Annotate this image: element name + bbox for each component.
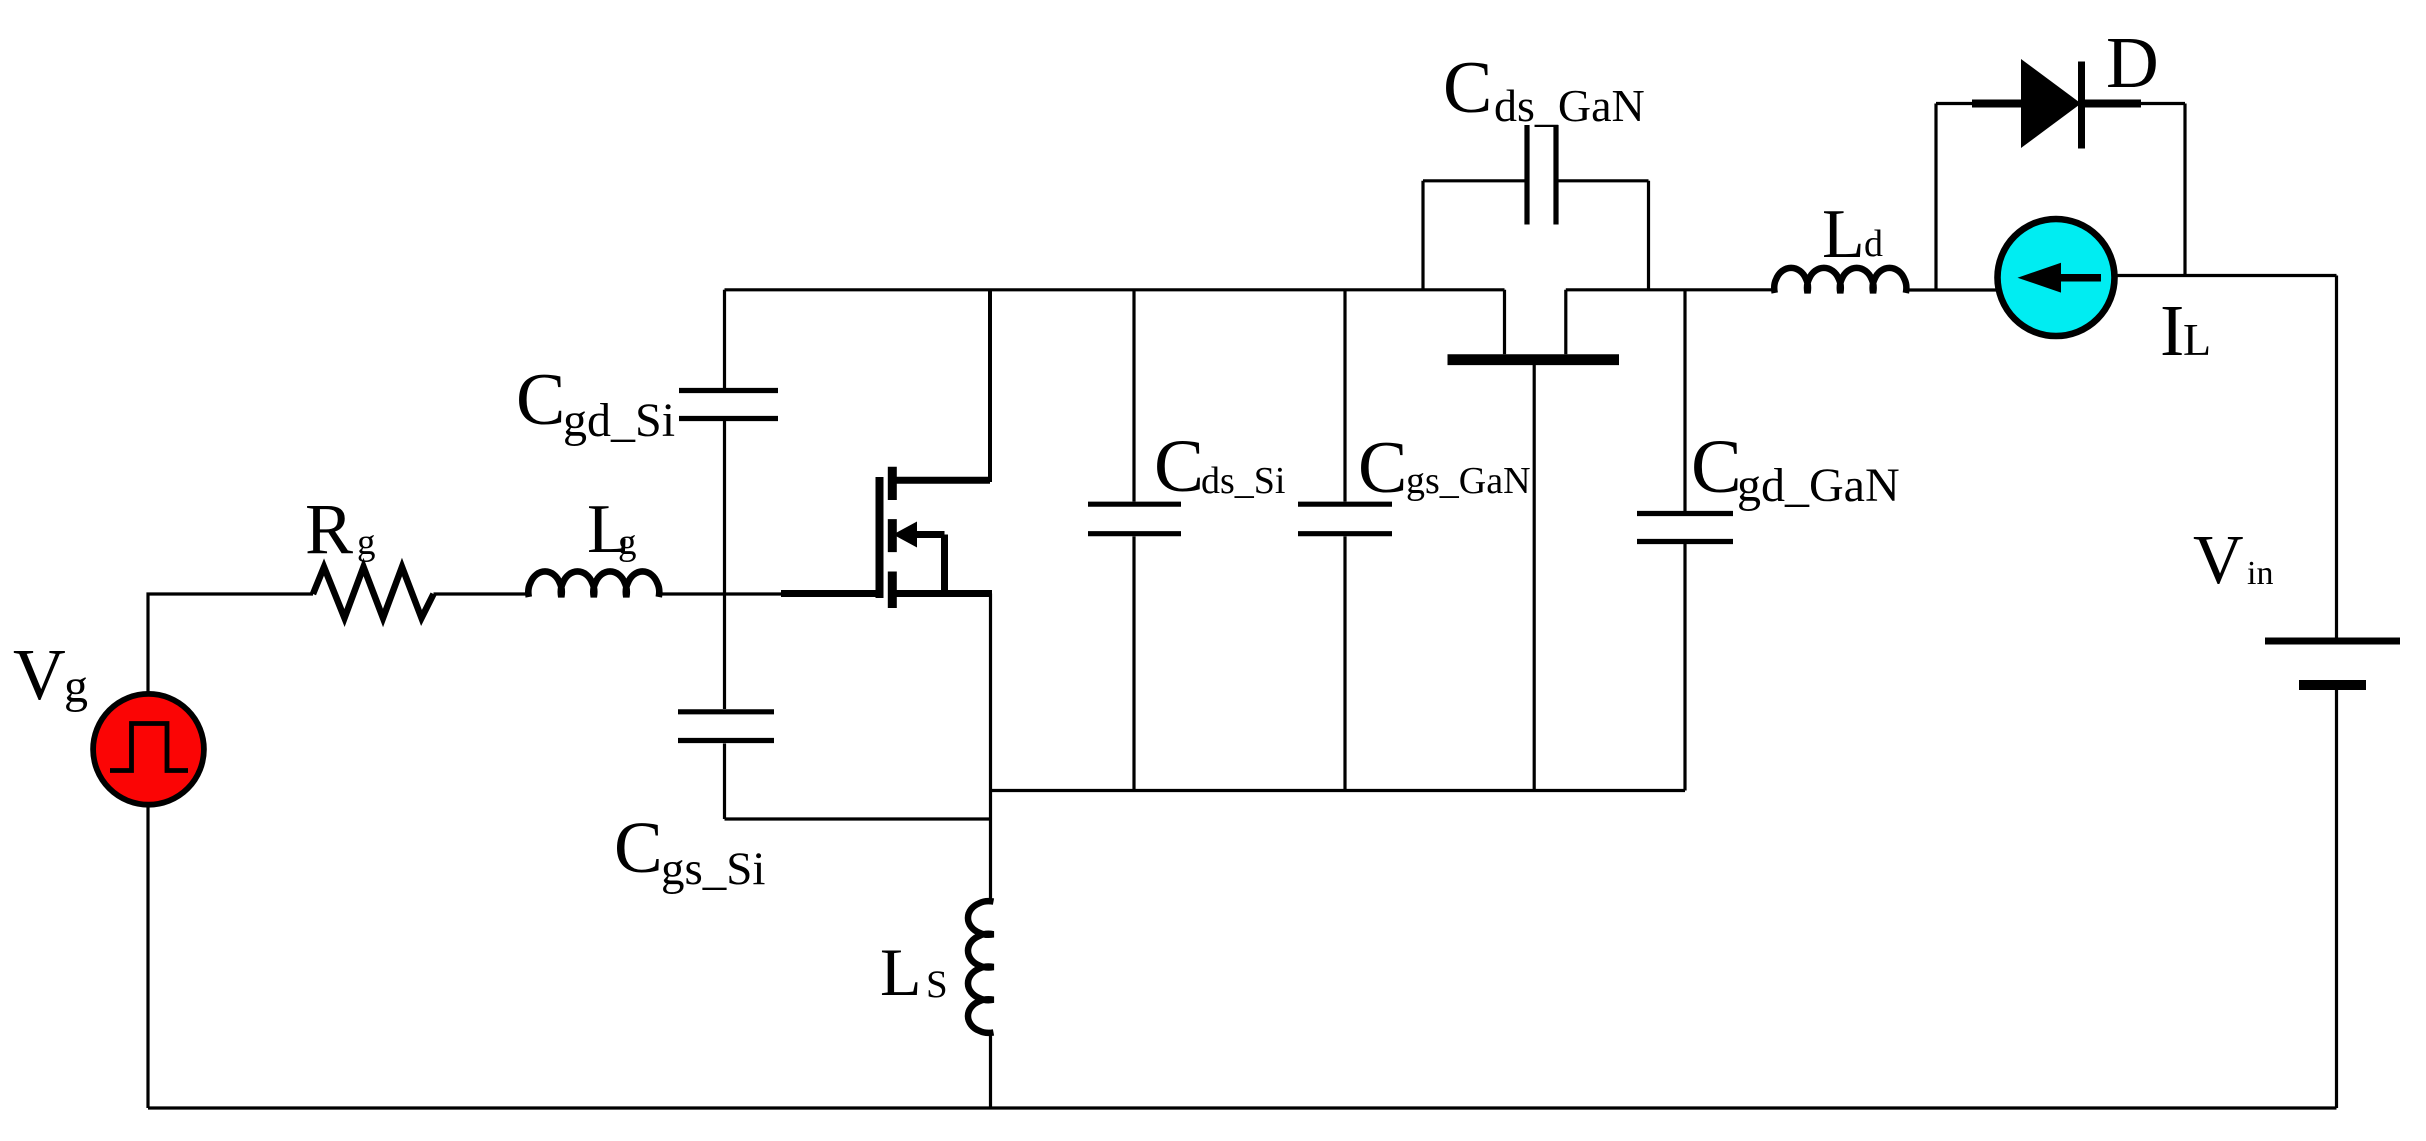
capacitor Cgs_Si — [678, 712, 774, 741]
Cds_GaN box right vertical — [1647, 181, 1650, 290]
branch Cgs_GaN vertical — [1343, 290, 1346, 791]
svg-text:C: C — [1358, 427, 1407, 509]
svg-text:S: S — [926, 963, 948, 1006]
wire: Ls bottom to bottom wire — [989, 1032, 992, 1108]
inductor Ld — [1774, 268, 1906, 293]
wire: source vertical down to Ls — [989, 594, 992, 902]
battery Vin short plate — [2299, 680, 2366, 690]
bottom return wire — [148, 1106, 2337, 1109]
Cds_GaN box top wires — [1423, 179, 1649, 182]
MOSFET Q1 drain lead — [892, 477, 990, 484]
diode loop left vertical — [1934, 104, 1937, 290]
svg-text:in: in — [2247, 555, 2273, 592]
bottom rail (source node) — [990, 789, 1685, 792]
GaN HEMT Q2 gate bar — [1448, 354, 1620, 365]
svg-text:L: L — [1822, 196, 1865, 273]
svg-text:ds_Si: ds_Si — [1201, 460, 1285, 502]
inductor Ls — [968, 901, 994, 1033]
wire: drain vertical to top rail — [988, 290, 992, 482]
svg-text:C: C — [614, 807, 663, 888]
current source IL circle — [1998, 219, 2115, 336]
Cds_GaN box left vertical — [1421, 181, 1424, 290]
wire: Cgs_Si bottom to source node (y=819) — [725, 817, 991, 820]
wire: Vg top lead up to gate row — [148, 594, 313, 700]
svg-text:L: L — [2183, 314, 2211, 365]
GaN HEMT Q2 source stub — [1503, 290, 1506, 355]
wire: Rg to Lg — [434, 592, 530, 595]
battery Vin long plate — [2265, 638, 2400, 645]
svg-text:C: C — [1154, 425, 1204, 508]
capacitor Cds_Si — [1088, 504, 1181, 534]
MOSFET Q1 source lead — [892, 590, 992, 597]
diode D anode lead — [1972, 100, 2022, 108]
wire: right vertical down to battery — [2335, 276, 2338, 638]
svg-text:gd_Si: gd_Si — [563, 394, 675, 447]
svg-text:g: g — [357, 522, 376, 563]
svg-text:C: C — [1691, 425, 1742, 509]
diode loop right vertical — [2183, 104, 2186, 276]
svg-text:V: V — [2193, 522, 2244, 599]
svg-text:gd_GaN: gd_GaN — [1737, 459, 1900, 512]
wire: Lg to gate node — [659, 592, 781, 595]
wire: IL circle to right corner (right rail) — [2055, 274, 2337, 277]
capacitor Cgs_GaN — [1298, 504, 1392, 534]
inductor Lg — [528, 571, 659, 597]
wire: gate branch vertical (x=724.5) with gaps for Cgd_Si and Cgs_Si — [723, 290, 726, 819]
voltage source Vg circle — [93, 694, 204, 805]
svg-text:C: C — [516, 359, 565, 441]
top rail left segment — [725, 288, 1505, 291]
top rail right segment — [1566, 288, 1774, 291]
wire: Ld to IL circle (left rail) — [1906, 288, 2060, 291]
capacitor Cds_GaN (vertical plates) — [1527, 125, 1556, 225]
MOSFET Q1 gate lead — [781, 590, 876, 597]
svg-text:V: V — [13, 634, 66, 715]
current source IL arrow — [2058, 274, 2101, 282]
diode D cathode bar — [2078, 62, 2085, 149]
svg-text:L: L — [880, 934, 922, 1010]
svg-text:gs_Si: gs_Si — [661, 843, 766, 895]
MOSFET Q1 gate bar — [876, 477, 884, 598]
svg-text:g: g — [64, 660, 88, 713]
svg-text:D: D — [2106, 22, 2159, 103]
svg-text:C: C — [1443, 47, 1492, 129]
diode loop top wire — [1936, 102, 2185, 105]
MOSFET Q1 body arrow — [893, 522, 917, 548]
svg-text:d: d — [1864, 223, 1883, 265]
svg-text:g: g — [618, 522, 637, 563]
svg-text:gs_GaN: gs_GaN — [1406, 460, 1531, 502]
svg-text:I: I — [2160, 290, 2184, 371]
wire: Vg bottom lead to bottom wire — [146, 805, 149, 1108]
svg-text:R: R — [305, 489, 353, 569]
capacitor Cgd_GaN — [1637, 514, 1733, 542]
diode D cathode lead — [2082, 100, 2141, 108]
voltage source Vg pulse symbol — [110, 724, 188, 771]
capacitor Cgd_Si — [679, 391, 778, 419]
GaN HEMT Q2 drain stub — [1564, 290, 1567, 355]
svg-text:ds_GaN: ds_GaN — [1494, 80, 1645, 131]
branch Cds_Si vertical — [1132, 290, 1135, 791]
diode D triangle — [2021, 59, 2081, 148]
GaN HEMT Q2 gate wire down to source rail — [1533, 365, 1536, 791]
wire: battery bottom down to bottom wire — [2335, 690, 2338, 1108]
resistor Rg — [313, 567, 434, 618]
branch Cgd_GaN vertical — [1683, 290, 1686, 791]
MOSFET Q1 channel segments — [888, 467, 897, 608]
